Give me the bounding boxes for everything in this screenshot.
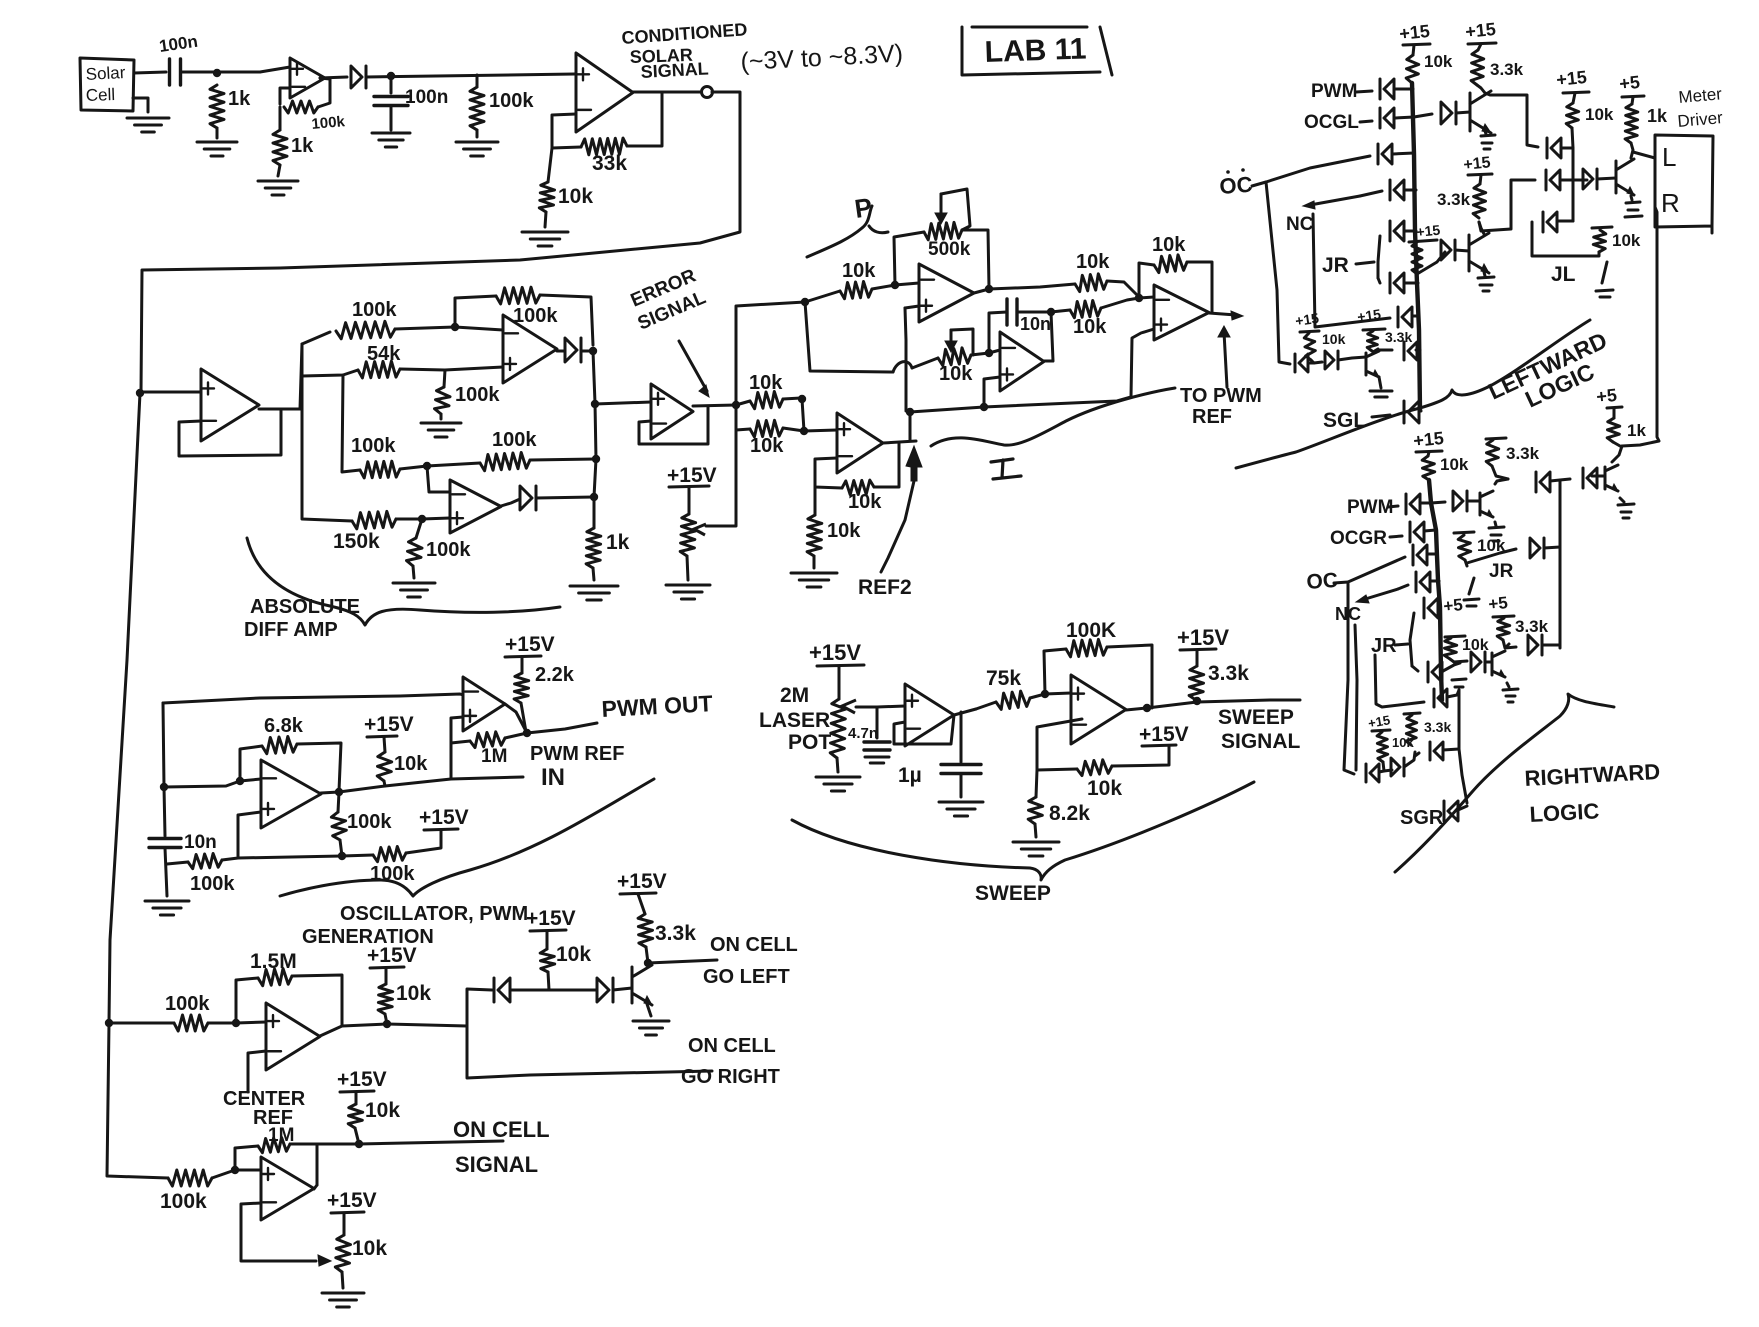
- resistor 10k col: [1566, 103, 1579, 128]
- wire osc minus: [164, 781, 240, 787]
- svg-text:POT: POT: [788, 731, 831, 754]
- wire 1k to gnd abs: [593, 568, 594, 580]
- svg-text:GO LEFT: GO LEFT: [703, 966, 790, 988]
- wire to lower amp: [235, 1169, 261, 1172]
- wire +15V bar gocell: [530, 930, 566, 931]
- diode SGL: [1404, 401, 1419, 423]
- resistor 10k center: [378, 984, 393, 1014]
- svg-text:SWEEP: SWEEP: [975, 882, 1051, 905]
- resistor 100k abs low-fb: [480, 453, 530, 471]
- diode OC R: [1413, 545, 1427, 565]
- wire Q7 collector: [1507, 644, 1509, 646]
- op-amp U15 center: [266, 1003, 320, 1070]
- wire +15 stem col: [1573, 93, 1575, 103]
- wire lower out: [314, 1185, 317, 1189]
- resistor 10k I pot: [938, 348, 971, 366]
- wire 2.2k down: [521, 703, 526, 732]
- wire Q3 emitter: [1379, 377, 1381, 388]
- svg-text:3.3k: 3.3k: [1424, 719, 1451, 735]
- wire ref2 fb tap: [874, 443, 899, 487]
- ground filter cap: [372, 133, 410, 147]
- resistor 75k: [996, 691, 1030, 709]
- resistor 10k err to ref: [750, 392, 783, 409]
- resistor 10k Q7: [1444, 638, 1457, 659]
- node input divider: [213, 69, 221, 77]
- resistor 10k P out: [1075, 274, 1107, 292]
- wire +15 bar Q1: [1468, 43, 1496, 44]
- svg-text:L: L: [1662, 142, 1676, 172]
- wire go left: [648, 960, 717, 963]
- svg-text:+5: +5: [1487, 593, 1508, 614]
- wire Lcol2 to node: [1560, 179, 1573, 182]
- wire 10kmid down: [1465, 560, 1467, 566]
- squiggle P: [807, 206, 888, 257]
- resistor 100k to gnd mid: [435, 387, 451, 414]
- wire bottom branch: [302, 513, 352, 521]
- transistor Q2 leftward: [1469, 233, 1489, 273]
- resistor 100k abs fb: [496, 287, 540, 304]
- wire P plus stub: [905, 306, 919, 308]
- wire L bus: [1412, 83, 1420, 410]
- wire Q2 collector: [1479, 222, 1484, 234]
- op-amp U7 ref2: [837, 413, 883, 473]
- resistor 10k trim: [335, 1235, 350, 1272]
- wire refplus down: [802, 399, 804, 431]
- node osc cap: [160, 783, 168, 791]
- svg-text:100k: 100k: [513, 305, 558, 327]
- svg-text:10k: 10k: [827, 520, 861, 542]
- arrow error signal: [679, 341, 707, 391]
- op-amp U10 sum: [1154, 285, 1209, 340]
- wire error down: [735, 405, 738, 430]
- wire +15V stem 3.3k: [638, 894, 645, 914]
- ground U2 10k: [522, 232, 568, 246]
- svg-text:10k: 10k: [556, 943, 591, 966]
- wire fb right: [540, 295, 593, 345]
- wire Q5 collector rise: [1495, 479, 1508, 484]
- resistor 100k center in: [174, 1015, 208, 1031]
- wire +5 stem Q6: [1613, 408, 1616, 418]
- wire NC curve: [1360, 191, 1382, 196]
- wire col to QL diode: [1573, 179, 1587, 182]
- wire SGL dash: [1372, 415, 1390, 417]
- resistor 8.2k: [1028, 797, 1043, 824]
- svg-text:54k: 54k: [367, 343, 401, 365]
- wire 1M left: [451, 741, 470, 743]
- brace absolute diff amp: [247, 538, 560, 625]
- ground Q2: [1478, 277, 1494, 291]
- wire node to opamp U1: [260, 67, 290, 72]
- wire buf to 75k: [976, 702, 996, 709]
- svg-text:3.3k: 3.3k: [1490, 60, 1524, 79]
- wire to node lowmid: [400, 466, 427, 469]
- wire sweep buf fb: [894, 715, 954, 744]
- diode L col3: [1543, 212, 1557, 232]
- op-amp U9 I: [1000, 332, 1044, 391]
- wire filter cap to gnd: [390, 106, 393, 130]
- resistor 100k osc hyst: [188, 854, 222, 869]
- svg-text:+15: +15: [1412, 428, 1444, 451]
- wire +15V stem oncell: [355, 1092, 358, 1104]
- diode D3 abs bottom: [520, 486, 536, 510]
- node P minus: [891, 281, 899, 289]
- wire 100k to +15 corner: [406, 831, 441, 853]
- diode Q3 out: [1404, 342, 1417, 360]
- wire node to plus U5: [422, 518, 450, 519]
- wire cap right: [1017, 311, 1051, 314]
- wire comp plus loop: [451, 717, 463, 779]
- wire 100k lower gnd stub: [416, 519, 422, 538]
- wire 1M right: [505, 733, 527, 738]
- wire 8.2k gnd: [1035, 824, 1036, 837]
- wire I minus in: [989, 350, 1000, 353]
- resistor 10k JL: [1593, 230, 1606, 252]
- diode SGR: [1444, 801, 1458, 821]
- resistor 3.3k R: [1486, 440, 1499, 466]
- wire on cell signal: [317, 1141, 503, 1144]
- svg-text:+15V: +15V: [364, 713, 414, 736]
- svg-text:SWEEP: SWEEP: [1218, 706, 1294, 729]
- svg-text:10k: 10k: [394, 753, 428, 775]
- node center out: [383, 1020, 391, 1028]
- svg-text:IN: IN: [541, 764, 565, 791]
- wire conditioned signal to bus: [141, 92, 740, 392]
- wire +15V bar sweep2: [1142, 745, 1176, 746]
- wire 10k to sum: [1107, 281, 1139, 297]
- wire PWM R dash: [1388, 506, 1398, 507]
- wire lower minus loop: [241, 1203, 316, 1261]
- node refplus top: [798, 395, 806, 403]
- label I symbol: [991, 459, 1021, 479]
- resistor 10k gocell: [540, 949, 555, 972]
- wire PWM diode to bus: [1395, 88, 1413, 91]
- svg-text:+5: +5: [1618, 72, 1641, 94]
- ground 8.2k: [1013, 842, 1059, 856]
- wire OC R wire: [1334, 557, 1405, 583]
- diode bottom R1: [1366, 764, 1379, 782]
- node on cell 10k: [355, 1140, 363, 1148]
- wire +15 bar col: [1563, 92, 1589, 93]
- svg-text:3.3k: 3.3k: [655, 922, 696, 945]
- wire 10k I to sum: [1101, 298, 1139, 308]
- wire D4 to node: [510, 989, 549, 992]
- wire 150k to node: [396, 518, 422, 521]
- wire rail to 100k: [342, 855, 373, 856]
- diode lowR: [1528, 635, 1542, 655]
- resistor 2M laser pot: [830, 699, 846, 758]
- wire Q7 emitter gnd: [1507, 683, 1509, 687]
- svg-text:500k: 500k: [928, 239, 971, 260]
- wire comp out: [505, 704, 527, 733]
- op-amp U5 abs bottom: [450, 480, 501, 533]
- wire +15 bar L1: [1403, 44, 1430, 45]
- svg-text:+15: +15: [1356, 306, 1382, 325]
- resistor 3.3k botR: [1406, 715, 1417, 745]
- wire diode to Q1: [1456, 112, 1470, 113]
- node signal bus tap: [136, 389, 144, 397]
- capacitor 100n input: [170, 59, 181, 85]
- svg-text:3.3k: 3.3k: [1208, 662, 1249, 685]
- wire +5 bar Q7: [1445, 636, 1465, 637]
- capacitor 100n filter: [374, 97, 408, 106]
- op-amp U3 buffer: [201, 369, 259, 441]
- wire 8.2k: [1036, 770, 1037, 797]
- wire U4 to D2: [557, 350, 565, 353]
- svg-text:REF: REF: [1192, 406, 1232, 428]
- wire Q2 emitter gnd: [1484, 272, 1485, 276]
- wire bar 3.3k R: [1486, 438, 1506, 439]
- svg-text:+15V: +15V: [617, 870, 667, 893]
- wire +15V stem sweep: [1196, 650, 1199, 666]
- resistor 1k U1 gain: [273, 130, 287, 165]
- wire bus to Q1 diode: [1414, 114, 1432, 117]
- wire 500k wiper loop: [941, 189, 970, 230]
- wire 75k to node: [1030, 694, 1045, 698]
- pot arrow right: [318, 1255, 331, 1266]
- diode NC low L: [1398, 307, 1412, 327]
- wire U1 fb right: [318, 78, 330, 107]
- node lowmid: [423, 462, 431, 470]
- wire to center amp: [236, 1022, 266, 1023]
- wire osc cap down: [164, 787, 165, 836]
- transistor Q5 rightward: [1480, 491, 1493, 517]
- wire diode to filter: [366, 74, 575, 77]
- wire ref2 div down: [814, 487, 817, 515]
- wire 100k to minus node: [395, 327, 455, 329]
- wire OClow right: [1308, 362, 1314, 365]
- wire Q1 emitter: [1485, 131, 1486, 134]
- resistor 100k abs low-in: [360, 461, 400, 478]
- node filter: [387, 72, 395, 80]
- wire R right vert: [1559, 480, 1562, 648]
- wire +15V stem offset: [688, 487, 691, 514]
- wire bottom rail: [238, 856, 342, 858]
- wire offset pot up: [706, 430, 736, 526]
- resistor 54k: [358, 361, 400, 378]
- wire JR left vert: [1378, 236, 1380, 278]
- wire hyst left: [167, 862, 188, 864]
- node out bus bottom: [590, 493, 598, 501]
- node P path a: [801, 298, 809, 306]
- wire OC diode to bus: [1393, 153, 1414, 154]
- resistor 10k mid R: [1458, 535, 1471, 560]
- title box: [962, 27, 1112, 75]
- svg-text:ON CELL: ON CELL: [688, 1035, 776, 1057]
- wire 100k load to gnd: [476, 130, 479, 137]
- svg-text:+15: +15: [1463, 154, 1492, 174]
- wire botR2 to 3.3k: [1404, 752, 1415, 767]
- wire U2 fb drop: [627, 92, 662, 146]
- svg-text:4.7n: 4.7n: [848, 725, 878, 742]
- wire JRaR to bus: [1438, 606, 1440, 609]
- svg-text:10k: 10k: [1585, 105, 1614, 124]
- wire P minus in: [895, 283, 919, 285]
- transistor Q1 leftward: [1470, 91, 1491, 133]
- ground 4.7n: [865, 757, 889, 763]
- svg-text:+15: +15: [1464, 19, 1496, 42]
- wire +15V stem center: [385, 968, 388, 984]
- wire error node: [693, 405, 736, 406]
- svg-text:10k: 10k: [749, 372, 783, 394]
- wire Q3out to bus: [1416, 349, 1420, 352]
- diode to Q5: [1453, 491, 1467, 511]
- resistor 10k P input: [840, 282, 872, 299]
- diode lowL mid: [1325, 351, 1338, 369]
- svg-text:10k: 10k: [1152, 234, 1186, 256]
- diode mid R: [1530, 538, 1544, 558]
- wire 10k Q7 down: [1450, 659, 1454, 662]
- ground offset pot: [666, 585, 710, 599]
- svg-text:R: R: [1661, 188, 1680, 218]
- resistor 10k U2: [539, 182, 554, 212]
- wire sum fb left: [1139, 263, 1154, 298]
- op-amp U13 sweep buf: [905, 684, 954, 746]
- arrow NC R: [1362, 589, 1398, 600]
- ground Q7: [1503, 689, 1518, 702]
- wire osc out long: [339, 779, 451, 792]
- wire +15V stem trim: [343, 1213, 346, 1235]
- wire to gnd mid: [440, 414, 443, 419]
- diode L col2: [1546, 170, 1560, 190]
- resistor 1k Q6: [1607, 418, 1620, 442]
- wire vert Pa: [805, 302, 893, 372]
- svg-text:+5: +5: [1595, 385, 1618, 407]
- wire hop to pot: [912, 358, 938, 368]
- node pwm out: [523, 729, 531, 737]
- wire osc top: [163, 694, 463, 703]
- svg-text:GO RIGHT: GO RIGHT: [681, 1066, 780, 1088]
- terminal conditioned output: [702, 87, 713, 98]
- node I out top: [1047, 308, 1055, 316]
- wire laser wiper: [856, 706, 877, 709]
- transistor Q6 rightward: [1605, 465, 1618, 491]
- svg-text:JL: JL: [1551, 263, 1576, 286]
- svg-text:LAB 11: LAB 11: [984, 32, 1087, 69]
- ground JL: [1596, 262, 1613, 297]
- wire botR1 right: [1379, 771, 1384, 772]
- resistor 100k osc out: [331, 812, 346, 840]
- node error: [732, 401, 740, 409]
- svg-text:SIGNAL: SIGNAL: [1221, 730, 1301, 753]
- resistor 10k sum fb: [1154, 255, 1187, 273]
- wire bar botR2: [1404, 713, 1420, 714]
- svg-text:OSCILLATOR, PWM: OSCILLATOR, PWM: [340, 903, 528, 925]
- wire JR R vert: [1410, 613, 1414, 666]
- svg-text:33k: 33k: [592, 152, 627, 175]
- svg-text:1k: 1k: [606, 531, 630, 554]
- wire 10k U2 to gnd: [545, 212, 546, 227]
- node center plus: [232, 1019, 240, 1027]
- wire +5 bar Q6: [1607, 407, 1622, 408]
- wire P apex: [974, 289, 989, 293]
- svg-text:+15V: +15V: [419, 806, 469, 829]
- wire box left: [467, 989, 492, 1026]
- wire wiper to amp: [877, 706, 905, 707]
- wire minus node down: [548, 148, 552, 182]
- wire OC rising: [1266, 156, 1370, 182]
- svg-text:10k: 10k: [1322, 331, 1346, 347]
- diode R top2: [1583, 468, 1597, 488]
- wire QL collector: [1631, 143, 1633, 158]
- resistor 100k U1 feedback: [284, 101, 318, 113]
- svg-text:1k: 1k: [291, 135, 314, 157]
- wire 10k center down: [385, 1014, 387, 1024]
- wire hyst right: [222, 812, 261, 860]
- svg-text:10k: 10k: [1073, 316, 1107, 338]
- svg-text:10k: 10k: [365, 1099, 400, 1122]
- wire bus to lower: [107, 1023, 168, 1178]
- resistor 10k L bus: [1406, 55, 1419, 83]
- wire 10k gocell down: [548, 972, 549, 990]
- wire OCGL diode to bus: [1395, 117, 1414, 118]
- svg-text:+15V: +15V: [337, 1068, 387, 1091]
- svg-text:10k: 10k: [848, 491, 882, 513]
- wire osc minus in: [240, 779, 261, 781]
- wire QL emitter gnd: [1631, 196, 1632, 200]
- wire top branch: [302, 332, 330, 344]
- wire +15V stem comp: [521, 657, 524, 673]
- wire diode to Q5: [1467, 500, 1480, 503]
- svg-text:100k: 100k: [160, 1190, 207, 1213]
- wire Q2 to diode2: [1479, 180, 1535, 231]
- wire node down to minus: [427, 466, 450, 492]
- wire 500k right: [962, 230, 989, 288]
- wire lowR to vert: [1542, 644, 1560, 647]
- wire D3 to bus: [536, 497, 594, 498]
- svg-text:DIFF AMP: DIFF AMP: [244, 619, 338, 641]
- diode D5 right: [597, 978, 613, 1002]
- arrowhead sum out: [1231, 311, 1243, 320]
- svg-text:100k: 100k: [455, 384, 500, 406]
- capacitor 10n: [1007, 299, 1017, 325]
- wire OC R down: [1344, 582, 1354, 774]
- wire P fb up: [894, 232, 924, 285]
- wire sweep buf out: [954, 709, 976, 715]
- node P out: [985, 285, 993, 293]
- ground abs lower: [393, 583, 435, 597]
- ground solar cell: [127, 118, 169, 132]
- resistor 100k lower gnd: [407, 538, 423, 566]
- resistor 100k sweep: [1066, 639, 1107, 656]
- wire offset 10k right: [783, 428, 804, 431]
- wire JRbR to bus: [1442, 670, 1443, 673]
- wire I out vert: [1044, 312, 1053, 361]
- wire 100k gnd stub: [444, 370, 445, 387]
- svg-text:ON CELL: ON CELL: [453, 1117, 550, 1142]
- svg-text:10k: 10k: [939, 363, 973, 385]
- svg-text:100k: 100k: [489, 90, 534, 112]
- svg-text:OC: OC: [1306, 569, 1339, 594]
- resistor 10k ref2 div: [807, 515, 822, 556]
- resistor 3.3k lowR: [1497, 618, 1510, 640]
- wire 10k to refplus: [783, 398, 801, 399]
- svg-text:2M: 2M: [780, 684, 809, 707]
- resistor 10k sweep fb: [1077, 760, 1112, 776]
- wire 1M lower right: [290, 1144, 317, 1185]
- svg-text:100n: 100n: [405, 87, 448, 108]
- svg-text:+15: +15: [1398, 21, 1430, 44]
- wire Q5 emitter gnd: [1495, 522, 1496, 526]
- svg-text:ABSOLUTE: ABSOLUTE: [250, 596, 360, 618]
- wire P out to 10k: [989, 284, 1075, 289]
- resistor 1k shunt: [210, 85, 224, 128]
- svg-text:1µ: 1µ: [898, 764, 922, 787]
- wire Q1 to right: [1485, 93, 1538, 147]
- wire NCR wire: [1398, 585, 1408, 589]
- svg-text:1k: 1k: [1627, 421, 1646, 440]
- node 150k: [418, 515, 426, 523]
- brace oscillator: [280, 779, 654, 896]
